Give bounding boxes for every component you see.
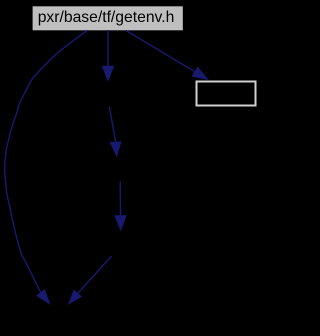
node pxr/base/tf/getenv.h (root) <box>33 6 183 30</box>
wire edge node2 to node3 <box>115 181 126 230</box>
wire edge root to node1 (vertical) <box>102 30 113 81</box>
node (empty box, right) <box>197 82 256 106</box>
wire edge node1 to node2 <box>109 107 121 156</box>
svg-text:pxr/base/tf/getenv.h: pxr/base/tf/getenv.h <box>38 9 175 26</box>
wire edge root to empty box (diagonal) <box>126 31 208 80</box>
wire edge node3 to bottom node (diagonal) <box>69 256 112 304</box>
wire edge root to bottom node (long left curve) <box>5 30 88 303</box>
